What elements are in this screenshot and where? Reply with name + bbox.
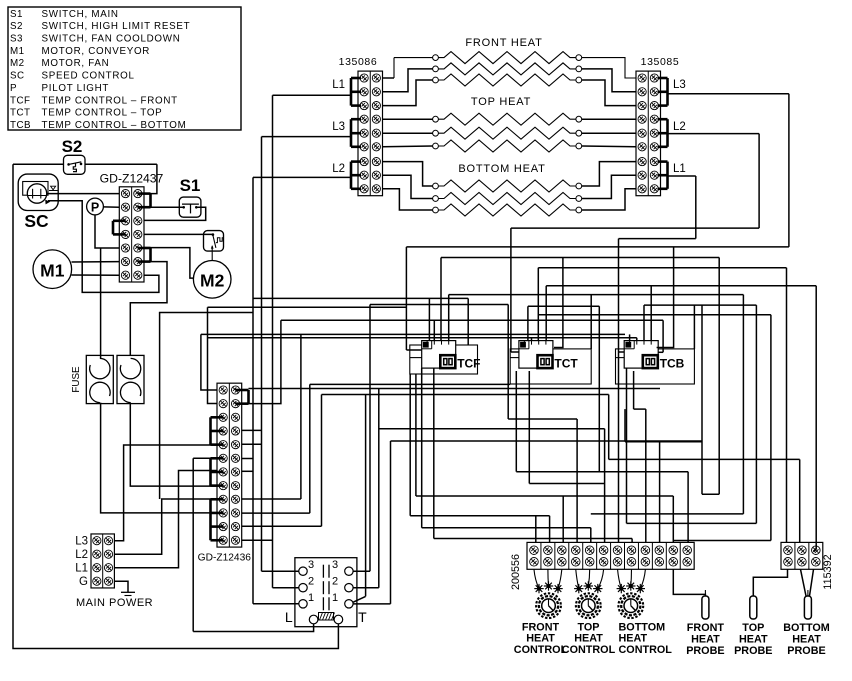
svg-text:L1: L1 xyxy=(75,563,88,575)
svg-text:FUSE: FUSE xyxy=(71,366,82,393)
svg-text:S2: S2 xyxy=(10,21,23,32)
svg-text:2: 2 xyxy=(332,576,338,588)
svg-text:S1: S1 xyxy=(180,176,201,195)
svg-text:135085: 135085 xyxy=(641,56,680,68)
svg-text:SWITCH, FAN COOLDOWN: SWITCH, FAN COOLDOWN xyxy=(42,34,181,45)
svg-text:M2: M2 xyxy=(10,58,25,69)
svg-text:HEAT: HEAT xyxy=(619,633,648,645)
svg-text:L2: L2 xyxy=(75,549,88,561)
svg-text:P: P xyxy=(10,83,17,94)
svg-text:L1: L1 xyxy=(332,79,345,91)
svg-text:SC: SC xyxy=(24,211,49,231)
svg-text:TCF: TCF xyxy=(457,357,480,371)
svg-text:FRONT HEAT: FRONT HEAT xyxy=(465,37,542,49)
svg-text:P: P xyxy=(91,200,99,214)
svg-text:PROBE: PROBE xyxy=(787,645,825,657)
svg-text:HEAT: HEAT xyxy=(691,634,720,646)
svg-text:TCB: TCB xyxy=(10,120,31,131)
svg-text:PROBE: PROBE xyxy=(686,645,724,657)
svg-text:GD-Z12436: GD-Z12436 xyxy=(198,553,252,564)
svg-text:CONTROL: CONTROL xyxy=(562,644,616,656)
svg-text:L2: L2 xyxy=(332,163,345,175)
svg-text:L1: L1 xyxy=(673,163,686,175)
svg-text:S3: S3 xyxy=(10,34,23,45)
svg-text:TOP HEAT: TOP HEAT xyxy=(471,96,531,108)
svg-text:TCT: TCT xyxy=(10,108,31,119)
svg-text:HEAT: HEAT xyxy=(792,634,821,646)
svg-text:3: 3 xyxy=(308,559,314,571)
svg-text:MOTOR, FAN: MOTOR, FAN xyxy=(42,58,110,69)
svg-text:S1: S1 xyxy=(10,9,23,20)
svg-text:SWITCH, MAIN: SWITCH, MAIN xyxy=(42,9,119,20)
svg-text:BOTTOM: BOTTOM xyxy=(783,622,830,634)
svg-text:TEMP CONTROL – BOTTOM: TEMP CONTROL – BOTTOM xyxy=(42,120,187,131)
svg-text:SPEED CONTROL: SPEED CONTROL xyxy=(42,71,135,82)
svg-text:L3: L3 xyxy=(673,79,686,91)
svg-text:BOTTOM HEAT: BOTTOM HEAT xyxy=(458,163,545,175)
svg-text:200556: 200556 xyxy=(510,554,522,590)
svg-text:MAIN POWER: MAIN POWER xyxy=(76,597,153,609)
svg-text:T: T xyxy=(358,609,367,625)
svg-text:HEAT: HEAT xyxy=(526,633,555,645)
svg-text:GD-Z12437: GD-Z12437 xyxy=(100,172,164,186)
svg-text:TEMP CONTROL – TOP: TEMP CONTROL – TOP xyxy=(42,108,163,119)
svg-text:115392: 115392 xyxy=(822,554,834,589)
svg-text:CONTROL: CONTROL xyxy=(514,644,568,656)
svg-text:M1: M1 xyxy=(10,46,25,57)
svg-text:1: 1 xyxy=(308,592,314,604)
svg-text:G: G xyxy=(79,576,88,588)
svg-text:PROBE: PROBE xyxy=(734,645,772,657)
svg-text:L2: L2 xyxy=(673,121,686,133)
svg-text:135086: 135086 xyxy=(339,56,378,68)
svg-text:L3: L3 xyxy=(332,121,345,133)
svg-text:TEMP CONTROL – FRONT: TEMP CONTROL – FRONT xyxy=(42,95,178,106)
svg-text:SWITCH, HIGH LIMIT RESET: SWITCH, HIGH LIMIT RESET xyxy=(42,21,191,32)
svg-text:M2: M2 xyxy=(200,271,225,291)
svg-text:TCF: TCF xyxy=(10,95,31,106)
svg-text:TOP: TOP xyxy=(742,622,764,634)
svg-text:3: 3 xyxy=(332,559,338,571)
svg-text:1: 1 xyxy=(332,592,338,604)
svg-text:L3: L3 xyxy=(75,536,88,548)
svg-text:HEAT: HEAT xyxy=(739,634,768,646)
svg-text:HEAT: HEAT xyxy=(574,633,603,645)
svg-text:PILOT LIGHT: PILOT LIGHT xyxy=(42,83,110,94)
svg-text:MOTOR, CONVEYOR: MOTOR, CONVEYOR xyxy=(42,46,151,57)
svg-text:FRONT: FRONT xyxy=(687,622,725,634)
svg-text:2: 2 xyxy=(308,576,314,588)
svg-text:SC: SC xyxy=(10,71,25,82)
svg-text:TCB: TCB xyxy=(660,357,685,371)
svg-text:M1: M1 xyxy=(40,260,65,280)
svg-text:TCT: TCT xyxy=(554,357,578,371)
svg-text:L: L xyxy=(285,609,293,625)
svg-text:S2: S2 xyxy=(62,137,83,156)
svg-text:CONTROL: CONTROL xyxy=(619,644,673,656)
